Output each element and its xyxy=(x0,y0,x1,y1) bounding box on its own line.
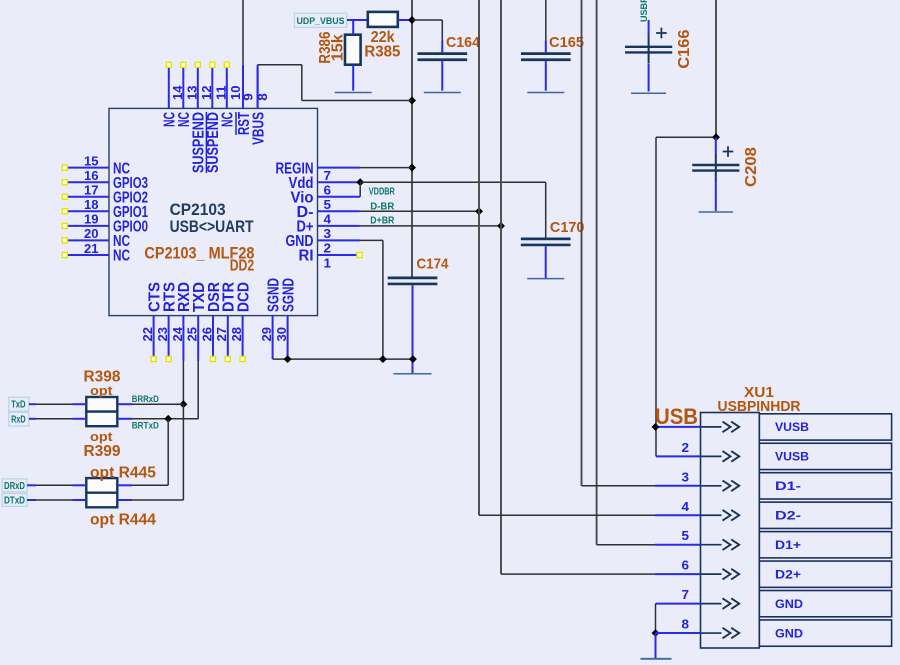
svg-text:USBPWR: USBPWR xyxy=(639,0,650,22)
svg-text:17: 17 xyxy=(84,184,99,198)
svg-text:27: 27 xyxy=(215,327,229,342)
svg-text:opt: opt xyxy=(90,429,113,444)
svg-text:15: 15 xyxy=(84,154,99,168)
svg-text:6: 6 xyxy=(682,559,690,573)
svg-text:24: 24 xyxy=(171,327,185,342)
svg-text:opt R444: opt R444 xyxy=(90,512,156,529)
svg-text:D1-: D1- xyxy=(775,479,801,493)
svg-text:22: 22 xyxy=(141,327,155,342)
svg-text:USB<>UART: USB<>UART xyxy=(170,218,254,236)
svg-text:30: 30 xyxy=(275,327,289,342)
svg-text:opt R445: opt R445 xyxy=(90,464,156,481)
svg-text:DD2: DD2 xyxy=(230,258,255,275)
svg-text:1: 1 xyxy=(324,256,332,270)
svg-text:NC: NC xyxy=(113,248,130,265)
svg-text:RxD: RxD xyxy=(11,415,26,426)
svg-text:7: 7 xyxy=(324,169,332,183)
svg-text:BRRxD: BRRxD xyxy=(132,394,159,405)
svg-text:7: 7 xyxy=(682,588,690,602)
svg-text:5: 5 xyxy=(324,198,332,212)
svg-text:opt: opt xyxy=(90,383,113,398)
svg-text:DRxD: DRxD xyxy=(4,481,25,492)
svg-text:4: 4 xyxy=(324,213,332,227)
svg-text:C170: C170 xyxy=(550,219,585,236)
svg-text:USBPINHDR: USBPINHDR xyxy=(718,398,801,415)
svg-text:DCD: DCD xyxy=(235,282,252,312)
svg-text:VUSB: VUSB xyxy=(775,450,809,464)
svg-text:NC: NC xyxy=(220,112,237,127)
svg-text:GND: GND xyxy=(775,626,803,640)
svg-text:8: 8 xyxy=(682,618,690,632)
svg-text:R385: R385 xyxy=(364,44,400,61)
svg-text:20: 20 xyxy=(84,227,99,241)
svg-text:18: 18 xyxy=(84,198,99,212)
svg-text:15k: 15k xyxy=(329,34,346,61)
svg-text:23: 23 xyxy=(156,327,170,342)
svg-text:RI: RI xyxy=(299,248,314,265)
svg-text:UDP_VBUS: UDP_VBUS xyxy=(297,16,345,27)
svg-text:21: 21 xyxy=(84,242,99,256)
svg-text:2: 2 xyxy=(682,441,690,455)
svg-text:D1+: D1+ xyxy=(775,538,801,552)
svg-text:2: 2 xyxy=(324,242,332,256)
svg-text:29: 29 xyxy=(260,327,274,342)
svg-text:19: 19 xyxy=(84,213,99,227)
svg-text:C164: C164 xyxy=(446,34,481,51)
svg-text:VUSB: VUSB xyxy=(775,420,809,434)
svg-text:BRTxD: BRTxD xyxy=(132,421,159,432)
svg-text:CP2103: CP2103 xyxy=(170,201,226,219)
svg-text:DTxD: DTxD xyxy=(4,496,25,507)
svg-text:SGND: SGND xyxy=(280,278,297,312)
svg-text:TxD: TxD xyxy=(11,400,26,411)
svg-text:GND: GND xyxy=(775,597,803,611)
svg-text:D+BR: D+BR xyxy=(370,215,395,226)
svg-text:VBUS: VBUS xyxy=(250,112,267,145)
svg-text:D2-: D2- xyxy=(775,509,801,523)
svg-text:28: 28 xyxy=(230,327,244,342)
svg-text:C174: C174 xyxy=(417,255,450,272)
svg-text:R399: R399 xyxy=(84,443,121,460)
svg-text:3: 3 xyxy=(682,470,690,484)
svg-text:USB: USB xyxy=(655,404,698,429)
svg-text:16: 16 xyxy=(84,169,99,183)
svg-text:25: 25 xyxy=(186,327,200,342)
svg-text:C165: C165 xyxy=(549,34,584,51)
svg-text:C208: C208 xyxy=(743,147,760,187)
svg-text:26: 26 xyxy=(200,327,214,342)
svg-text:D-BR: D-BR xyxy=(370,201,395,212)
svg-text:3: 3 xyxy=(324,227,332,241)
svg-text:4: 4 xyxy=(682,500,690,514)
svg-text:D2+: D2+ xyxy=(775,567,801,581)
svg-text:C166: C166 xyxy=(676,29,693,68)
svg-text:6: 6 xyxy=(324,184,332,198)
svg-text:5: 5 xyxy=(682,529,690,543)
svg-text:VDDBR: VDDBR xyxy=(369,187,396,198)
